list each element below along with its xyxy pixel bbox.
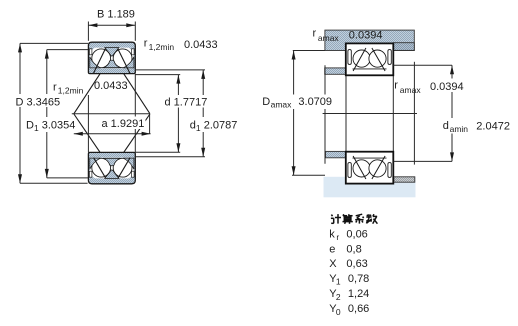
extension a right [149, 114, 151, 134]
shaft shoulder block top-left [325, 68, 347, 74]
contact lines [353, 48, 366, 71]
dimension D1 extension lines [47, 49, 88, 51]
glyph 计 [331, 215, 332, 217]
glyph 数 [366, 216, 371, 218]
bore line right [134, 74, 136, 153]
housing band top [325, 30, 414, 50]
dimension D extension lines [20, 42, 88, 44]
svg-text:0,78: 0,78 [348, 273, 369, 285]
ball left [353, 160, 370, 177]
inner ring centre wedge [103, 158, 121, 166]
pressure centre line [72, 113, 150, 115]
contact line top-left (outside) [74, 72, 101, 114]
svg-text:d: d [443, 120, 449, 132]
seal notch right [132, 171, 135, 177]
ball upper-right [113, 49, 132, 68]
outer ring corner right [129, 173, 134, 178]
lower bearing box [346, 152, 394, 184]
svg-text:0,66: 0,66 [348, 303, 369, 315]
raceway interior white [90, 48, 134, 69]
svg-text:1: 1 [336, 277, 341, 287]
svg-text:e: e [329, 243, 335, 255]
bore side line right [392, 75, 394, 151]
svg-text:a 1.9291: a 1.9291 [102, 118, 145, 130]
inner ring centre wedge [103, 60, 121, 68]
svg-text:2: 2 [336, 292, 341, 302]
ball right [369, 160, 386, 177]
shaft abutment face line [324, 65, 326, 164]
svg-text:k: k [329, 229, 335, 241]
svg-text:2.0472: 2.0472 [476, 121, 510, 133]
bore line left [87, 95, 89, 152]
contact lines [353, 156, 366, 179]
inner ring line [353, 68, 387, 70]
svg-text:r: r [394, 80, 398, 92]
outer ring corner left [90, 173, 95, 178]
dimension B line [88, 24, 135, 26]
contact lines inside lower section [94, 158, 106, 178]
outer ring centre wedge [105, 170, 119, 179]
bore side line left [345, 75, 347, 151]
ball lower-left [92, 158, 111, 177]
seal notch left [89, 171, 92, 177]
shaft shoulder block bottom-left [326, 151, 347, 157]
svg-text:1,2min: 1,2min [58, 85, 84, 95]
svg-text:X: X [329, 258, 337, 270]
contact line top-right (outside) [123, 72, 150, 114]
svg-text:r: r [53, 82, 57, 94]
glyph 系 [356, 214, 363, 216]
inner ring corner left [90, 57, 101, 68]
dimension damin extension lines [393, 64, 452, 66]
outer ring corner left [90, 48, 95, 53]
contact line bottom-left (outside) [74, 114, 101, 154]
ball right [369, 50, 386, 67]
svg-text:d 1.7717: d 1.7717 [165, 96, 208, 108]
svg-text:D: D [262, 96, 270, 108]
svg-text:0.0433: 0.0433 [94, 80, 128, 92]
svg-text:0,8: 0,8 [346, 243, 361, 255]
shaft pale band bottom [324, 177, 416, 198]
lower bearing section body [88, 152, 135, 183]
white backing for labels [261, 95, 336, 110]
dimension D1 line [46, 50, 48, 178]
white backing for dimension texts [14, 94, 58, 107]
inner ring corner right [123, 158, 134, 169]
contact line bottom-right (outside) [123, 114, 150, 154]
dimension D line [19, 43, 21, 183]
svg-text:amax: amax [271, 99, 293, 109]
svg-text:0,06: 0,06 [346, 229, 367, 241]
housing bore face line [413, 62, 415, 165]
svg-text:0: 0 [336, 307, 341, 317]
seal tab right [388, 50, 391, 65]
svg-text:D 3.3465: D 3.3465 [16, 96, 61, 108]
seal notch right [132, 49, 135, 55]
ball lower-right [113, 158, 132, 177]
svg-text:3.0709: 3.0709 [298, 96, 332, 108]
outer ring corner right [129, 48, 134, 53]
svg-text:D1 3.0354: D1 3.0354 [26, 119, 75, 133]
svg-text:amax: amax [318, 33, 340, 43]
dimension d line [177, 75, 179, 153]
svg-text:amin: amin [450, 124, 469, 134]
heading 计算系数 drawn as strokes [331, 214, 378, 224]
housing shoulder block bottom-right [394, 177, 415, 182]
svg-text:r: r [336, 232, 339, 242]
seal tab left [348, 50, 351, 65]
dimension damin line [451, 65, 453, 161]
svg-text:0.0394: 0.0394 [349, 30, 383, 42]
svg-text:amax: amax [400, 85, 422, 95]
centre line [323, 113, 417, 115]
outer ring centre wedge [105, 48, 119, 57]
seal notch left [89, 49, 92, 55]
svg-text:B 1.189: B 1.189 [97, 8, 135, 20]
svg-text:0.0433: 0.0433 [184, 39, 218, 51]
dimension Damax line [293, 51, 295, 176]
dimension d1 line [202, 70, 204, 157]
inner ring line [353, 157, 387, 159]
housing shoulder block top-right [393, 43, 414, 51]
seal tab left [348, 163, 351, 178]
contact lines inside upper section [94, 49, 106, 74]
svg-text:0,63: 0,63 [346, 258, 367, 270]
svg-text:r: r [313, 28, 317, 40]
seal tab right [388, 163, 391, 178]
raceway interior white [90, 158, 134, 179]
glyph 算 [343, 214, 344, 215]
upper bearing box [346, 43, 394, 75]
ball upper-left [92, 49, 111, 68]
upper bearing section body [88, 42, 135, 73]
dimension d1 extension lines [135, 69, 205, 71]
dimension d extension lines [135, 74, 180, 76]
svg-text:r: r [144, 37, 148, 49]
svg-text:0.0394: 0.0394 [430, 81, 464, 93]
dimension Damax extension lines [293, 50, 325, 52]
dimension a line [74, 133, 151, 135]
ball left [353, 50, 370, 67]
svg-text:1,24: 1,24 [348, 288, 369, 300]
inner ring corner right [123, 57, 134, 68]
dimension B extension lines [87, 22, 89, 41]
svg-text:1,2min: 1,2min [149, 42, 175, 52]
inner ring corner left [90, 158, 101, 169]
